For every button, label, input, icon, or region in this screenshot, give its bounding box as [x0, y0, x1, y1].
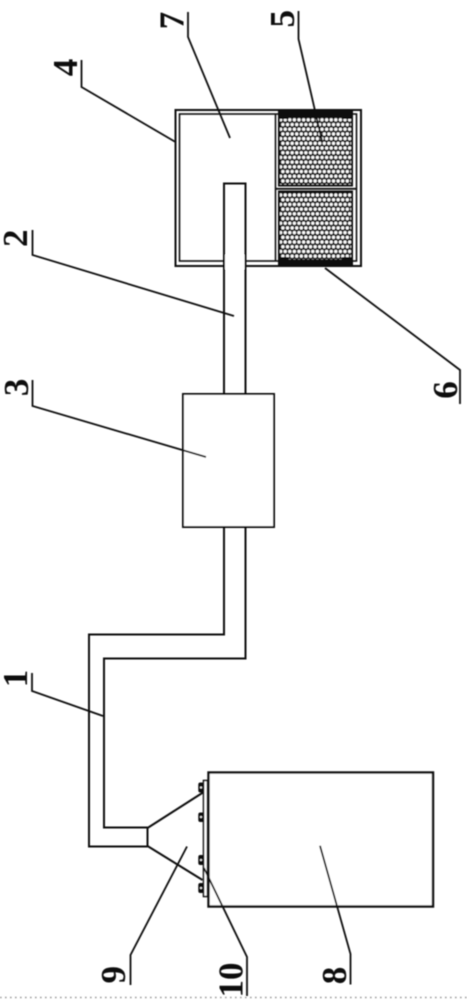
svg-text:3: 3: [0, 379, 36, 397]
svg-text:7: 7: [153, 12, 192, 30]
svg-text:1: 1: [0, 670, 35, 688]
svg-text:5: 5: [263, 10, 302, 28]
svg-text:6: 6: [426, 381, 465, 399]
svg-text:2: 2: [0, 230, 35, 248]
svg-text:10: 10: [212, 963, 251, 998]
svg-text:4: 4: [46, 59, 85, 77]
svg-text:8: 8: [315, 967, 354, 985]
svg-text:9: 9: [94, 966, 133, 984]
